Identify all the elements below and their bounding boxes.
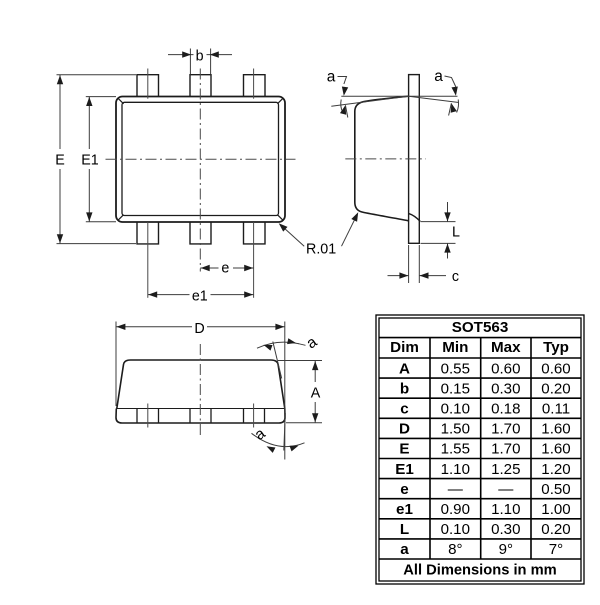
svg-text:0.15: 0.15 [441,380,470,397]
dimension c line right [419,275,446,277]
front view vertical centerline [199,344,201,437]
extension line bottom-left pin center [147,222,149,298]
svg-text:E: E [399,441,409,458]
dimension A line upper [314,361,316,382]
svg-text:0.60: 0.60 [491,360,520,377]
front angle slant extension bottom [284,413,286,451]
svg-text:a: a [327,68,336,85]
svg-text:e1: e1 [192,289,208,305]
table row divider 5 [379,417,581,419]
front view pin tick 4 [210,409,212,424]
angle a side-right arc [457,100,459,113]
front angle arc bottom arrow left [267,446,276,453]
dimension L extension bottom [421,242,456,244]
svg-text:c: c [452,269,459,285]
front angle arc top [257,342,299,348]
svg-text:0.30: 0.30 [491,380,520,397]
table row divider 1 [379,337,581,339]
svg-text:—: — [448,481,464,498]
dimension E arrow up [57,75,63,84]
svg-text:Min: Min [442,339,468,356]
dimension b arrow left [182,51,191,57]
svg-text:8°: 8° [448,541,462,558]
svg-text:1.70: 1.70 [491,421,520,438]
table inner border [379,318,581,581]
R.01 leader left [281,225,305,247]
table row divider 12 [379,558,581,560]
top view corner chamfer top-left [118,98,123,103]
svg-text:D: D [194,321,204,337]
side view slant line right [409,96,459,102]
dimension c extension right [418,245,420,283]
svg-text:A: A [399,360,410,377]
front angle top label leader [299,344,306,346]
table row divider 2 [379,357,581,359]
dimension L arrow up [444,244,450,253]
svg-text:E1: E1 [395,461,414,478]
dimension E1 line lower [88,169,90,222]
dimension e1 line right segment [211,294,254,296]
dimension E extension line top [57,74,137,76]
angle a side-left arrow down [342,86,348,95]
side view lead bottom fillet [409,214,420,222]
dimension L extension top [421,221,456,223]
top view pin top middle [190,75,211,97]
svg-text:a: a [400,541,409,558]
svg-text:7°: 7° [549,541,563,558]
svg-text:Dim: Dim [390,339,419,356]
svg-text:0.20: 0.20 [541,380,570,397]
dimension E1 extension line top [86,96,116,98]
top view corner chamfer bottom-right [277,215,282,220]
dimension D line left [116,326,192,328]
angle a side-right leader [445,76,456,87]
svg-text:b: b [400,380,409,397]
dimension c line left [388,275,409,277]
front view pin tick 2 [158,409,160,424]
dimension A line lower [314,402,316,423]
svg-text:0.10: 0.10 [441,521,470,538]
svg-text:0.30: 0.30 [491,521,520,538]
dimension E line lower [59,169,61,243]
dimension A arrow up [312,361,318,370]
dimension L arrow down [444,212,450,221]
svg-text:1.60: 1.60 [541,421,570,438]
front angle arc bottom arrow right [289,446,298,452]
svg-text:0.90: 0.90 [441,501,470,518]
R.01 arrow right [351,212,358,221]
dimension L line lower [447,243,449,258]
dimension E extension line bottom [57,243,137,245]
front view base strip [116,409,285,424]
dimension D extension left [115,322,117,407]
dimension D arrow right [275,324,284,330]
svg-text:1.60: 1.60 [541,441,570,458]
dimension b extension line left [189,49,191,75]
svg-text:1.10: 1.10 [491,501,520,518]
table row divider 8 [379,478,581,480]
dimension D arrow left [116,324,125,330]
svg-text:0.60: 0.60 [541,360,570,377]
top view pin bottom left [137,222,159,244]
table row divider 10 [379,518,581,520]
svg-text:R.01: R.01 [306,241,336,257]
top view corner chamfer bottom-left [118,215,123,220]
svg-text:0.20: 0.20 [541,521,570,538]
svg-text:0.10: 0.10 [441,401,470,418]
table row divider 4 [379,397,581,399]
dimension b extension line right [210,49,212,75]
table row divider 6 [379,437,581,439]
R.01 leader right [342,215,358,246]
side view horizontal datum line [341,95,457,97]
dimension A extension top [278,360,322,362]
top view pin center mark top-right [253,69,255,99]
table outer border [376,315,584,584]
svg-text:—: — [498,481,514,498]
svg-text:1.20: 1.20 [541,461,570,478]
svg-text:e1: e1 [396,501,413,518]
svg-text:1.00: 1.00 [541,501,570,518]
svg-text:0.18: 0.18 [491,401,520,418]
top view horizontal centerline [106,158,296,160]
front angle arc top arrow right [287,338,296,344]
dimension b line right segment [207,54,233,56]
dimension L line upper [447,202,449,222]
top view pin top right [244,75,266,97]
front view pin tick 3 [189,409,191,424]
dimension A extension bottom [286,422,322,424]
svg-text:e: e [400,481,408,498]
dimension e1 line left segment [148,294,190,296]
svg-text:1.10: 1.10 [441,461,470,478]
table row divider 7 [379,458,581,460]
dimension e line left segment [200,267,218,269]
svg-text:L: L [400,521,409,538]
angle a side-right tail [449,103,452,115]
svg-text:1.25: 1.25 [491,461,520,478]
front view body-strip divider [116,408,284,410]
svg-text:A: A [311,386,321,402]
angle a side-right arrow up [451,103,457,113]
table column divider 3 [530,338,532,559]
svg-text:Max: Max [491,339,521,356]
side view lead [409,75,420,244]
svg-text:D: D [399,421,410,438]
front view pin center mark left [147,404,149,428]
dimension c arrow right [399,272,408,278]
side view slant line left [331,96,408,106]
side view horizontal centerline [345,158,426,160]
svg-text:a: a [434,68,443,85]
top view pin top left [137,75,159,97]
dimension c arrow left [420,272,429,278]
dimension D extension right [284,322,286,460]
dimension e1 arrow right [244,291,253,297]
svg-text:b: b [196,48,204,64]
front view pin tick 1 [136,409,138,424]
svg-text:E1: E1 [81,152,99,168]
svg-text:E: E [55,152,65,168]
dimension E line upper [59,75,61,149]
top view pin center mark top-left [147,69,149,99]
svg-text:SOT563: SOT563 [452,319,509,336]
dimension E1 arrow up [86,97,92,106]
table row divider 9 [379,498,581,500]
svg-text:L: L [452,225,460,241]
svg-text:c: c [400,401,408,418]
side view body profile [355,96,409,221]
dimension b line left segment [168,54,194,56]
svg-text:1.55: 1.55 [441,441,470,458]
top view vertical centerline [199,69,201,272]
dimension c extension left [408,245,410,283]
dimension D line right [207,326,285,328]
dimension e1 arrow left [148,291,157,297]
table row divider 11 [379,538,581,540]
table column divider 2 [480,338,482,559]
angle a side-left leader [338,77,347,85]
dimension b arrow right [210,51,219,57]
svg-text:Typ: Typ [543,339,569,356]
front angle arc bottom [252,433,305,446]
front angle slant extension top [273,342,282,379]
front view pin tick 5 [243,409,245,424]
svg-text:0.55: 0.55 [441,360,470,377]
angle a side-left arrow up [340,105,346,115]
table row divider 3 [379,377,581,379]
top view pin bottom right [244,222,266,244]
svg-text:0.50: 0.50 [541,481,570,498]
top view body outer outline [116,97,285,223]
svg-text:All Dimensions in mm: All Dimensions in mm [403,563,556,579]
dimension E1 arrow down [86,212,92,221]
table column divider 1 [429,338,431,559]
dimension E arrow down [57,234,63,243]
front view body outline [117,360,285,409]
front view pin center mark right [253,404,255,428]
front angle arc top arrow left [264,345,273,351]
angle a side-right arrow down [451,86,457,95]
front view pin tick 6 [264,409,266,424]
dimension E1 extension line bottom [86,221,116,223]
dimension e line right segment [233,267,254,269]
dimension e arrow left [201,265,210,271]
svg-text:1.50: 1.50 [441,421,470,438]
svg-text:9°: 9° [499,541,513,558]
dimension A arrow down [312,413,318,422]
svg-text:1.70: 1.70 [491,441,520,458]
svg-text:0.11: 0.11 [542,401,570,418]
svg-text:e: e [221,261,229,277]
top view corner chamfer top-right [277,98,282,103]
R.01 arrow left [279,223,288,231]
angle a side-left tail [345,105,347,117]
dimension e arrow right [244,265,253,271]
dimension E1 line upper [88,97,90,149]
top view body inner outline [122,102,279,215]
top view pin bottom middle [190,222,211,244]
extension line bottom-right pin center [253,222,255,298]
angle a side-left arc [341,100,343,113]
